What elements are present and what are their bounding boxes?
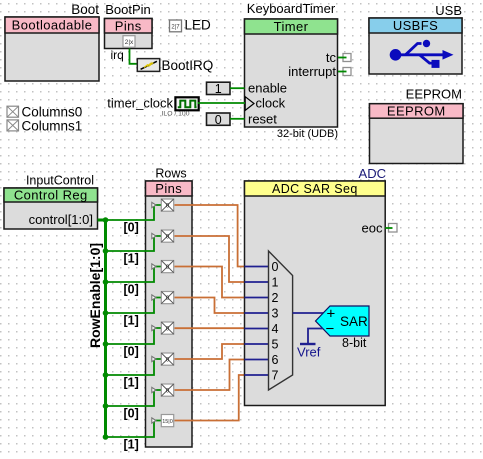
svg-text:eoc: eoc	[362, 221, 383, 236]
svg-text:irq: irq	[111, 48, 124, 62]
svg-text:32-bit (UDB): 32-bit (UDB)	[277, 128, 338, 140]
svg-text:2: 2	[272, 291, 279, 305]
svg-text:USBFS: USBFS	[393, 18, 438, 33]
svg-text:5: 5	[272, 338, 279, 352]
svg-text:InputControl: InputControl	[26, 174, 94, 188]
svg-text:Pins: Pins	[115, 18, 142, 33]
svg-text:ADC SAR Seq: ADC SAR Seq	[272, 182, 358, 196]
svg-text:USB: USB	[435, 3, 462, 18]
svg-text:8-bit: 8-bit	[342, 336, 367, 350]
svg-text:2|7: 2|7	[171, 25, 180, 31]
svg-text:Boot: Boot	[71, 2, 99, 17]
svg-text:7: 7	[272, 369, 279, 383]
svg-text:0: 0	[272, 260, 279, 274]
svg-text:RowEnable[1:0]: RowEnable[1:0]	[87, 243, 103, 348]
svg-text:[1]: [1]	[124, 438, 139, 452]
svg-text:2|x: 2|x	[125, 39, 134, 46]
svg-text:Vref: Vref	[297, 345, 321, 360]
svg-text:[0]: [0]	[124, 283, 139, 297]
svg-text:[1]: [1]	[124, 376, 139, 390]
svg-text:ILO / 100: ILO / 100	[162, 111, 190, 118]
svg-text:enable: enable	[248, 81, 287, 96]
svg-text:BootPin: BootPin	[105, 2, 151, 17]
svg-text:Columns1: Columns1	[22, 118, 83, 133]
svg-text:SAR: SAR	[340, 314, 368, 329]
svg-text:1: 1	[272, 276, 279, 290]
svg-text:interrupt: interrupt	[288, 64, 336, 79]
svg-text:[1]: [1]	[124, 314, 139, 328]
svg-text:−: −	[326, 321, 335, 338]
svg-text:3: 3	[272, 307, 279, 321]
svg-text:control[1:0]: control[1:0]	[29, 212, 93, 227]
svg-text:Timer: Timer	[274, 19, 309, 34]
svg-text:ADC: ADC	[359, 166, 386, 181]
svg-text:1: 1	[215, 82, 222, 96]
svg-text:[0]: [0]	[124, 345, 139, 359]
svg-text:Pins: Pins	[155, 181, 182, 196]
svg-text:EEPROM: EEPROM	[387, 103, 446, 118]
svg-text:KeyboardTimer: KeyboardTimer	[247, 1, 336, 16]
svg-text:clock: clock	[256, 96, 286, 111]
svg-text:0: 0	[215, 113, 222, 127]
svg-text:[0]: [0]	[124, 407, 139, 421]
svg-text:Bootloadable: Bootloadable	[12, 18, 93, 33]
svg-text:LED: LED	[185, 18, 212, 33]
svg-text:reset: reset	[248, 112, 277, 127]
svg-text:tc: tc	[326, 50, 337, 65]
svg-text:Rows: Rows	[155, 167, 186, 181]
svg-text:[0]: [0]	[124, 221, 139, 235]
svg-text:[1]: [1]	[124, 252, 139, 266]
svg-text:15|0: 15|0	[162, 419, 173, 425]
svg-text:6: 6	[272, 353, 279, 367]
svg-text:4: 4	[272, 322, 279, 336]
svg-text:timer_clock: timer_clock	[107, 96, 173, 111]
svg-text:EEPROM: EEPROM	[406, 87, 462, 102]
svg-text:Control Reg: Control Reg	[14, 188, 88, 203]
svg-text:BootIRQ: BootIRQ	[162, 58, 214, 73]
